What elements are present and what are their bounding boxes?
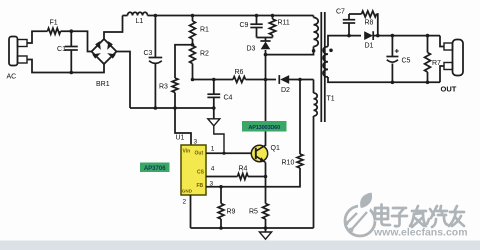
AC input plug J1 — [7, 37, 28, 81]
fuse F1 — [48, 20, 61, 35]
svg-text:C9: C9 — [240, 22, 249, 29]
inductor L1 — [128, 12, 148, 25]
junction D2 R10 node — [298, 78, 302, 82]
wire secondary bottom rail — [328, 77, 440, 82]
wire AC plug bottom to BR1 bottom vertex — [27, 60, 104, 73]
green part label AP13003 — [242, 121, 287, 132]
junction R7 top — [426, 34, 430, 38]
wire R1R2 node to R3 — [175, 45, 193, 78]
junction R9 bottom rail — [219, 226, 223, 230]
resistor R4 — [238, 166, 249, 180]
wire R2 to R6 — [193, 79, 234, 81]
svg-text:C1: C1 — [57, 46, 66, 53]
resistor R8 — [362, 11, 377, 27]
wire R4 to emitter line — [248, 176, 266, 178]
junction rail R11 — [271, 14, 275, 18]
wire T1 primary bottom to D3 — [266, 47, 314, 55]
svg-text:4: 4 — [211, 166, 215, 173]
wire DC+ top rail — [123, 15, 314, 17]
resistor R2 — [190, 46, 209, 80]
wire C9 R11 join — [257, 37, 273, 39]
svg-text:AP3706: AP3706 — [144, 166, 166, 172]
op IC U1 label — [176, 135, 185, 142]
junction C1 bottom — [70, 71, 74, 75]
junction C5 top — [391, 34, 395, 38]
svg-text:U1: U1 — [176, 135, 185, 142]
junction rail C3 — [154, 14, 158, 18]
pin FB number — [210, 181, 214, 188]
svg-text:OUT: OUT — [441, 85, 457, 94]
svg-text:D1: D1 — [365, 43, 374, 50]
bottom band — [0, 241, 480, 250]
svg-text:www.elecfans.com: www.elecfans.com — [373, 227, 468, 239]
svg-text:R1: R1 — [200, 27, 209, 34]
svg-text:R8: R8 — [365, 20, 374, 27]
junction R3 ground rail — [173, 106, 177, 110]
junction rail R1 — [191, 14, 195, 18]
watermark inner traces — [344, 212, 367, 232]
T1 primary phase dot — [312, 49, 316, 53]
junction C1 top — [70, 29, 74, 33]
junction D1 R8 — [376, 34, 380, 38]
wire FB net — [206, 168, 300, 187]
junction R4 emitter — [264, 175, 268, 179]
svg-text:L1: L1 — [136, 18, 144, 25]
svg-text:R2: R2 — [200, 51, 209, 58]
transformer T1 core — [321, 12, 325, 122]
ground rail primary — [130, 107, 214, 109]
wire Vin feed from ground rail — [175, 108, 191, 145]
wire switch node vertical — [265, 50, 267, 146]
diode D3 — [247, 38, 271, 53]
resistor R7 — [425, 36, 441, 83]
wire T1 aux bottom down — [313, 116, 315, 228]
svg-text:C5: C5 — [402, 58, 411, 65]
OUT plug J2 — [440, 36, 463, 94]
junction R5 bottom — [264, 226, 268, 230]
junction primary bottom node — [264, 53, 268, 57]
wire D2 to T1 aux — [287, 79, 314, 81]
svg-text:T1: T1 — [327, 96, 335, 103]
ground symbol — [259, 228, 271, 239]
wire R8 to cathode node — [377, 14, 378, 36]
junction C4 top — [212, 78, 216, 82]
junction C5 bottom — [391, 81, 395, 85]
resistor R5 — [249, 204, 268, 229]
svg-text:R4: R4 — [239, 166, 248, 173]
junction R7 bottom — [426, 81, 430, 85]
wire secondary top to D1 — [328, 36, 361, 47]
svg-text:R3: R3 — [159, 84, 168, 91]
wire U1 gnd down — [190, 195, 192, 228]
wire pin4 to R4 — [206, 176, 238, 178]
bottom ground rail — [191, 227, 314, 229]
svg-text:R5: R5 — [249, 209, 258, 216]
svg-text:Out: Out — [195, 151, 204, 157]
IC U1 body — [181, 145, 206, 195]
svg-text:1: 1 — [211, 146, 215, 153]
wire C7 to R8 — [349, 13, 362, 15]
svg-text:D2: D2 — [281, 87, 290, 94]
junction rail C9 — [255, 14, 259, 18]
junction R2 bottom — [191, 78, 195, 82]
resistor R6 — [233, 69, 246, 83]
watermark chinese text — [375, 205, 465, 228]
svg-text:BR1: BR1 — [96, 81, 110, 88]
capacitor C9 — [240, 16, 263, 38]
resistor R9 — [218, 187, 235, 228]
wire F1 to C1 to BR1 left vertex — [61, 31, 92, 51]
svg-text:C7: C7 — [336, 9, 345, 16]
bridge rectifier BR1 — [92, 39, 117, 88]
wire BR1 plus output to rail — [104, 16, 123, 40]
svg-text:R11: R11 — [278, 20, 290, 27]
svg-text:AC: AC — [7, 74, 17, 81]
svg-text:D3: D3 — [247, 46, 256, 53]
junction pin1 hook — [222, 152, 225, 155]
ground arrow below C4 — [208, 108, 220, 126]
capacitor C4 — [207, 80, 232, 109]
svg-text:R6: R6 — [235, 69, 244, 76]
transistor Q1 — [251, 145, 280, 162]
svg-text:AP13003D60: AP13003D60 — [248, 125, 280, 131]
junction C4 ground rail — [212, 106, 216, 110]
wire AC plug top to F1 — [27, 31, 48, 43]
svg-text:F1: F1 — [50, 20, 58, 27]
resistor R11 — [269, 16, 290, 38]
green part label AP3706 — [140, 163, 170, 173]
junction switch node mid — [264, 78, 268, 82]
T1 aux winding — [314, 80, 318, 117]
svg-text:C4: C4 — [224, 94, 233, 101]
pin 2 number — [183, 199, 187, 206]
wire pin1 to Q1 base — [206, 152, 252, 154]
wire R6 to D2 — [246, 79, 277, 81]
svg-text:C3: C3 — [144, 50, 153, 57]
T1 secondary winding — [323, 47, 328, 78]
wire output plus net — [373, 35, 440, 37]
capacitor C7 — [336, 9, 355, 36]
capacitor C1 — [57, 31, 78, 72]
svg-text:2: 2 — [183, 199, 187, 206]
watermark url text — [373, 227, 468, 240]
junction R1 R2 node — [191, 43, 195, 47]
capacitor C3 — [144, 16, 163, 109]
junction C7 bottom — [347, 34, 351, 38]
diode D2 — [279, 75, 290, 94]
svg-text:GND: GND — [182, 189, 193, 194]
watermark logo circle — [345, 202, 376, 237]
resistor R10 — [282, 80, 303, 169]
pin 3 number top — [194, 139, 198, 146]
junction C3 ground rail — [154, 106, 158, 110]
svg-text:R9: R9 — [227, 209, 236, 216]
T1 secondary phase dot — [329, 49, 333, 53]
capacitor C5 — [386, 36, 410, 83]
svg-text:R10: R10 — [282, 160, 295, 167]
wire BR1 minus output down to ground rail — [117, 52, 131, 109]
svg-text:CS: CS — [197, 170, 205, 176]
wire arrow hook to pin1 net — [214, 126, 224, 153]
watermark leaf — [360, 193, 372, 208]
resistor R1 — [190, 16, 209, 46]
svg-text:Vin: Vin — [183, 149, 191, 155]
T1 label — [327, 96, 335, 103]
svg-text:FB: FB — [197, 183, 204, 189]
pin 4 number — [211, 166, 215, 173]
svg-text:Q1: Q1 — [271, 145, 280, 152]
wire Q1 emitter down — [265, 162, 267, 203]
pin 1 number — [211, 146, 215, 153]
resistor R3 — [159, 78, 178, 108]
T1 primary winding — [314, 16, 319, 47]
diode D1 — [364, 31, 373, 49]
junction R9 top — [219, 185, 223, 189]
